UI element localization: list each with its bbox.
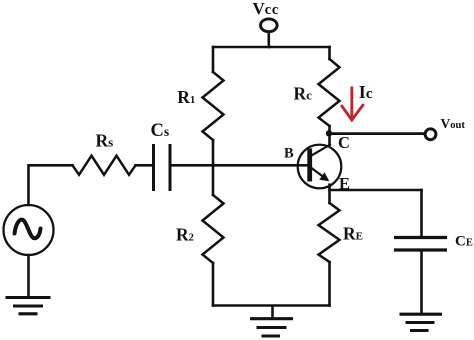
svg-text:CE: CE — [455, 234, 473, 250]
ground below CE — [400, 314, 443, 330]
svg-text:R2: R2 — [176, 225, 194, 245]
wire: Rs to Cs — [136, 164, 153, 167]
resistor Rc — [319, 59, 340, 126]
resistor R1 — [203, 72, 224, 140]
wire: R1 to base node — [212, 140, 215, 165]
capacitor Cs — [154, 144, 171, 191]
svg-text:Vcc: Vcc — [253, 0, 279, 18]
wire: base node to R2 — [212, 165, 215, 195]
wire: Cs to base — [170, 164, 308, 167]
svg-text:RE: RE — [343, 224, 363, 244]
svg-text:B: B — [284, 146, 294, 162]
wire: node C to Vout — [331, 132, 424, 135]
wire: AC source top to Rs — [29, 165, 73, 205]
wire: bottom rail — [213, 304, 330, 307]
svg-text:Rc: Rc — [294, 84, 313, 104]
wire: emitter node to CE top plate — [420, 190, 423, 237]
wire: RE to bottom rail — [328, 262, 331, 306]
wire: top rail to Rc — [328, 47, 331, 59]
Vout terminal — [425, 129, 436, 140]
wire: R2 to bottom rail — [212, 263, 215, 306]
capacitor CE — [394, 238, 447, 251]
wire: emitter node to CE — [330, 189, 422, 192]
wire: Vcc terminal to top rail — [267, 32, 270, 47]
svg-text:Ic: Ic — [359, 82, 373, 102]
ground center — [250, 306, 293, 337]
wire: emitter to RE — [328, 185, 331, 203]
svg-text:R1: R1 — [177, 87, 195, 107]
svg-text:Cs: Cs — [151, 121, 170, 141]
wire: AC source to ground — [27, 255, 30, 297]
current arrow Ic — [342, 87, 363, 121]
svg-text:Rs: Rs — [96, 131, 114, 151]
svg-text:C: C — [338, 133, 350, 152]
resistor RE — [319, 203, 340, 262]
node C junction dot — [326, 130, 332, 136]
wire: top rail — [213, 46, 330, 49]
wire: collector to node C — [328, 133, 331, 145]
svg-text:Vout: Vout — [441, 116, 466, 131]
wire: CE to ground — [420, 250, 423, 313]
ground below source — [6, 298, 51, 314]
AC source VS — [4, 205, 54, 255]
resistor R2 — [203, 195, 224, 263]
transistor Q1 — [298, 145, 342, 189]
wire: top rail to R1 — [212, 47, 215, 72]
resistor Rs — [73, 156, 136, 175]
wire: Rc to node C — [328, 126, 331, 133]
Vcc terminal — [261, 19, 278, 32]
